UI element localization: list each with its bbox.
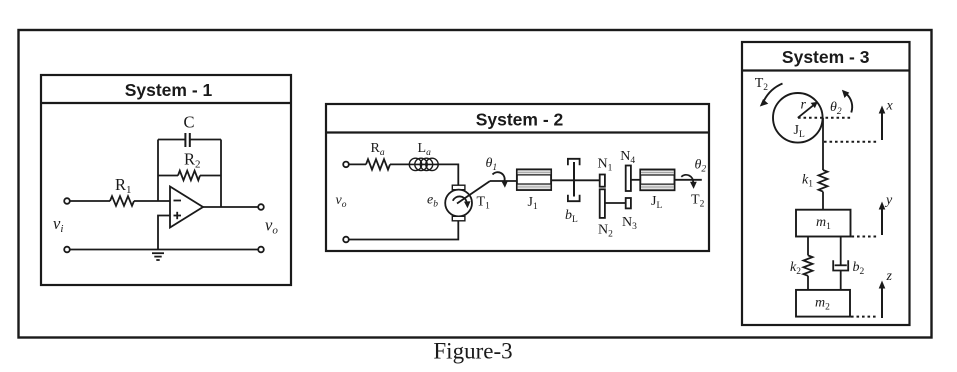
svg-text:k2: k2 [790,260,801,277]
gear N1 [600,175,605,187]
gear N4 [626,166,631,192]
motor eb commutator top [452,185,465,190]
node vi input terminal [64,198,70,204]
wire C branch right [190,139,221,141]
system-1 box [41,75,291,285]
system-3 box [742,42,910,325]
system-2 box [326,104,709,251]
rope from pulley [822,118,824,170]
svg-text:N4: N4 [620,149,635,166]
svg-text:θ2: θ2 [695,158,707,175]
resistor R1 [110,196,134,206]
svg-text:T1: T1 [477,195,491,212]
wire feedback right vertical [220,140,222,208]
dashed leader x [824,141,877,143]
node vo output terminal [258,204,264,210]
svg-text:b2: b2 [853,260,865,277]
wire bottom rail [349,221,459,240]
mass m1 [796,210,851,237]
axis x arrow [879,106,886,141]
svg-text:System - 1: System - 1 [125,80,213,100]
spring k2 [804,255,813,275]
link damper cup to m2 [840,271,842,290]
resistor R2 [178,171,200,181]
arrow T2 [760,84,783,107]
wire output [203,206,258,208]
shaft diagonal from motor [457,181,490,204]
dashed leader z [851,316,877,318]
svg-text:La: La [418,141,432,158]
capacitor C [185,133,189,147]
svg-text:vo: vo [265,216,278,237]
wire La to corner and down to motor [437,164,459,185]
svg-text:θ1: θ1 [486,156,498,173]
damper b2 piston [835,264,847,266]
resistor Ra [366,159,390,169]
spring k1 [819,170,828,192]
bearing bL [568,159,580,201]
shaft JL output [675,179,702,181]
dashed reference from pulley center [798,117,852,119]
svg-text:k1: k1 [802,173,813,190]
damper b2 cylinder [833,260,848,270]
wire C branch left [158,139,185,141]
svg-text:x: x [886,99,894,114]
svg-text:R2: R2 [184,150,201,171]
motor eb commutator bottom [452,216,465,221]
svg-text:N1: N1 [598,157,613,174]
gear N2 [600,189,605,218]
motor rotation arrow [453,196,471,208]
outer figure frame [19,30,932,338]
svg-text:N3: N3 [622,215,637,232]
node vo top terminal [343,162,349,168]
link spring k2 to m2 [807,276,809,290]
svg-text:eb: eb [427,193,438,210]
svg-text:T2: T2 [691,193,705,210]
svg-text:vi: vi [53,214,63,235]
wire input to R1 [70,200,110,202]
svg-text:bL: bL [565,208,578,225]
arrow theta2 output [681,175,697,189]
rope spring to m1 [822,192,824,210]
op-amp U1 [170,187,203,228]
node bottom-right terminal [258,247,264,253]
svg-text:θ2: θ2 [830,100,842,117]
arrow theta1 [493,172,509,188]
axis y arrow [879,202,886,236]
axis z arrow [879,281,886,319]
inductor La [409,158,438,170]
ground [152,253,164,260]
radius arrow r [798,102,818,118]
svg-text:T2: T2 [755,76,769,93]
node bottom-left terminal [64,247,70,253]
shaft motor to J1 [490,180,517,182]
shaft J1 to gear N1 [552,179,600,181]
svg-text:Ra: Ra [371,141,385,158]
inertia J1 [517,169,551,190]
pulley JL [773,93,823,143]
svg-text:System - 2: System - 2 [476,110,564,130]
svg-text:R1: R1 [115,175,132,196]
link m1 to spring k2 [807,237,809,256]
wire R2 branch left [158,175,178,177]
svg-text:N2: N2 [598,223,613,240]
wire terminal to Ra [349,163,366,165]
shaft N2 to N3 [605,202,626,204]
svg-text:y: y [884,193,893,208]
svg-text:z: z [886,269,893,284]
svg-text:Figure-3: Figure-3 [433,339,512,364]
wire feedback left vertical [157,140,159,202]
svg-text:C: C [184,113,195,132]
arrow theta2 [842,90,852,113]
svg-text:JL: JL [651,194,662,211]
wire Ra to La [390,163,411,165]
wire R2 branch right [200,175,221,177]
motor eb body [445,190,472,217]
wire R1 to op-amp inverting input [134,200,170,202]
mass m2 [796,290,850,317]
svg-text:System - 3: System - 3 [782,47,870,67]
svg-text:r: r [801,98,807,113]
gear N3 [626,198,631,208]
svg-text:J1: J1 [528,195,538,212]
wire non-inverting input [158,216,170,250]
damper b2 rod [840,237,842,266]
svg-text:vo: vo [336,193,347,210]
dashed leader y [852,236,878,238]
node bottom terminal [343,237,349,243]
shaft N4 to JL [631,179,640,181]
wire bottom rail [70,249,258,251]
inertia JL [640,170,674,191]
